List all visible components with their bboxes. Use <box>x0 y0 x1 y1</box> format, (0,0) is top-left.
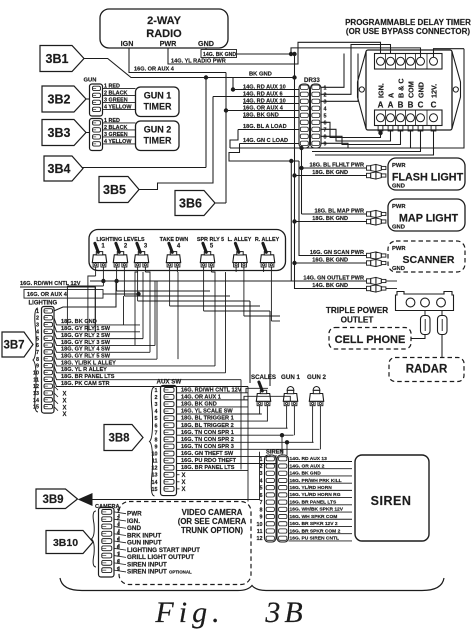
svg-text:X: X <box>62 412 66 418</box>
svg-text:18G. BK GND: 18G. BK GND <box>181 402 217 408</box>
svg-text:16G. PU RDO THEFT: 16G. PU RDO THEFT <box>181 458 237 464</box>
siren connector column A <box>265 455 277 542</box>
plug 1 (cell phone) <box>424 311 426 316</box>
figure brace <box>60 578 444 591</box>
svg-text:PROGRAMMABLE DELAY TIMER: PROGRAMMABLE DELAY TIMER <box>345 18 471 27</box>
svg-text:X: X <box>62 405 66 411</box>
svg-text:18G. GY RLY 2 SW: 18G. GY RLY 2 SW <box>61 333 111 339</box>
3B6 arrow <box>175 191 215 216</box>
svg-text:IGN.: IGN. <box>127 518 140 525</box>
svg-text:GUN 2: GUN 2 <box>144 125 172 135</box>
svg-text:9: 9 <box>36 364 39 370</box>
svg-text:SIREN INPUT: SIREN INPUT <box>127 561 167 568</box>
svg-text:A: A <box>387 93 396 98</box>
svg-text:X: X <box>181 473 185 479</box>
svg-text:14G. OR AUX 1: 14G. OR AUX 1 <box>181 394 221 400</box>
svg-text:4 YELLOW: 4 YELLOW <box>104 104 132 110</box>
svg-text:4: 4 <box>155 409 158 415</box>
svg-text:7: 7 <box>36 350 39 356</box>
svg-text:16G. GN SCAN PWR: 16G. GN SCAN PWR <box>310 250 364 256</box>
delay timer right wing <box>452 52 461 129</box>
delay timer bottom terminal strip <box>375 110 443 126</box>
svg-text:8: 8 <box>155 437 158 443</box>
svg-text:3 GREEN: 3 GREEN <box>104 97 128 103</box>
wire: 3B1 to BK GND horizontal <box>85 59 295 78</box>
DR33 connector column B <box>311 84 322 148</box>
svg-text:2 BLACK: 2 BLACK <box>104 125 127 131</box>
3B7 arrow <box>2 332 33 357</box>
svg-text:18G. BL TRIGGER 1: 18G. BL TRIGGER 1 <box>181 416 234 422</box>
svg-text:B & C: B & C <box>397 78 406 98</box>
svg-text:6: 6 <box>155 423 158 429</box>
svg-text:GUN 2: GUN 2 <box>307 374 326 381</box>
svg-text:18G. YL/BK L ALLEY: 18G. YL/BK L ALLEY <box>61 360 116 366</box>
svg-text:2: 2 <box>155 395 158 401</box>
3B4 arrow <box>44 156 83 181</box>
svg-text:1: 1 <box>36 309 39 315</box>
video camera box (dashed) <box>119 502 251 585</box>
svg-text:2-WAY: 2-WAY <box>147 15 181 27</box>
scanner box (dashed) <box>388 241 465 272</box>
lighting wire labels with underlines <box>54 318 140 325</box>
svg-text:PWR: PWR <box>392 246 406 252</box>
svg-text:5: 5 <box>155 416 158 422</box>
svg-text:5: 5 <box>210 244 214 250</box>
gun 2 connector <box>90 119 103 151</box>
svg-text:SCALES: SCALES <box>251 374 276 381</box>
switch panel box <box>89 230 286 271</box>
butt connector map gnd <box>367 218 386 225</box>
wire: timer bottom terminals down-left to DR33 <box>321 122 381 137</box>
flash light box <box>388 158 465 190</box>
DR33 wire labels left <box>233 89 299 91</box>
plug 2 (radar) <box>441 311 443 316</box>
svg-text:C: C <box>431 101 437 110</box>
DR33 connector column A <box>299 84 310 148</box>
svg-text:16G. OR AUX 4: 16G. OR AUX 4 <box>243 105 284 111</box>
svg-text:16G. TN CON SPR 2: 16G. TN CON SPR 2 <box>181 437 234 443</box>
svg-text:12: 12 <box>152 466 158 472</box>
wire: CNTL 12V to lighting web <box>20 287 95 332</box>
svg-text:16G. BR SPKR COM 2: 16G. BR SPKR COM 2 <box>290 528 341 534</box>
svg-text:14G. GN C LOAD: 14G. GN C LOAD <box>243 138 288 144</box>
3B5 arrow <box>99 177 139 203</box>
wire: cell phone to plug1 <box>411 335 425 339</box>
svg-text:5: 5 <box>324 113 327 119</box>
3B1 arrow <box>40 46 84 72</box>
butt connector flash pwr <box>367 164 386 171</box>
svg-text:GND: GND <box>392 225 405 231</box>
svg-text:7: 7 <box>155 430 158 436</box>
svg-text:11: 11 <box>257 529 263 535</box>
wire: 12V feed down right side to lights <box>434 49 465 57</box>
butt connector outlet pwr <box>367 277 386 284</box>
svg-text:14G. RD AUX 6: 14G. RD AUX 6 <box>243 91 283 97</box>
svg-text:(OR USE BYPASS CONNECTOR): (OR USE BYPASS CONNECTOR) <box>346 27 470 36</box>
butt connector flash gnd <box>367 172 386 179</box>
wire: plug2 to radar <box>441 335 443 358</box>
svg-text:16G. BR SPKR 12V 2: 16G. BR SPKR 12V 2 <box>290 521 338 527</box>
svg-text:12V.: 12V. <box>430 84 439 98</box>
svg-text:2: 2 <box>36 316 39 322</box>
svg-text:3: 3 <box>155 402 158 408</box>
svg-text:18G. BR PANEL LTS: 18G. BR PANEL LTS <box>181 465 235 471</box>
svg-text:14G. OR AUX 2: 14G. OR AUX 2 <box>290 463 325 469</box>
svg-text:18G. BL FLHLT PWR: 18G. BL FLHLT PWR <box>310 163 365 169</box>
svg-text:16G. GN THEFT SW: 16G. GN THEFT SW <box>181 451 234 457</box>
svg-text:18G. BK GND: 18G. BK GND <box>312 170 348 176</box>
svg-text:18G. YL R ALLEY: 18G. YL R ALLEY <box>61 367 107 373</box>
svg-text:MAP LIGHT: MAP LIGHT <box>399 213 459 225</box>
svg-text:16G. OR AUX 4: 16G. OR AUX 4 <box>27 292 68 298</box>
svg-text:AUX SW: AUX SW <box>157 379 182 386</box>
toggle switch 2 <box>114 263 119 267</box>
svg-text:C: C <box>418 101 424 110</box>
svg-text:4 YELLOW: 4 YELLOW <box>104 139 132 145</box>
svg-text:16G. TN CON SPR 3: 16G. TN CON SPR 3 <box>181 444 234 450</box>
svg-text:GND: GND <box>127 525 141 532</box>
svg-text:10: 10 <box>33 370 39 376</box>
svg-text:11: 11 <box>152 459 158 465</box>
svg-text:GUN INPUT: GUN INPUT <box>127 540 162 547</box>
gun2 pin wires and labels <box>103 122 136 124</box>
wire: C LOAD bracket down to lights feed <box>229 144 299 162</box>
wire: 3B3 to gun2 connector <box>86 132 90 134</box>
svg-text:18G. BL MAP PWR: 18G. BL MAP PWR <box>314 209 364 215</box>
wires from toggles to aux rows <box>260 406 262 415</box>
svg-text:X: X <box>62 392 66 398</box>
siren connector column B <box>277 455 289 542</box>
svg-text:3B2: 3B2 <box>48 93 71 107</box>
svg-text:GND: GND <box>417 82 426 98</box>
svg-text:GUN 1: GUN 1 <box>281 374 300 381</box>
wire: BK GND label to timer GND terminal <box>237 53 295 55</box>
triple power outlet bracket <box>396 292 454 311</box>
svg-text:18G. GY RLY 5 SW: 18G. GY RLY 5 SW <box>61 353 111 359</box>
wire: DR33 pin1 stub up <box>321 54 344 88</box>
2-way radio box <box>100 9 228 48</box>
svg-text:SCANNER: SCANNER <box>403 254 455 266</box>
toggle gun1 <box>284 401 289 405</box>
svg-text:1 RED: 1 RED <box>104 83 120 89</box>
svg-text:18G. BR PANEL LTS: 18G. BR PANEL LTS <box>61 374 115 380</box>
svg-text:A: A <box>378 101 384 110</box>
label: 16G. OR AUX 4 (boxed) <box>24 290 103 299</box>
wire: A LOAD staircase to lights feed <box>230 130 238 149</box>
wire: 3B6 stub to trunk <box>216 202 227 204</box>
svg-text:3B1: 3B1 <box>46 52 69 66</box>
3B9 arrow <box>36 489 78 509</box>
svg-text:16G. YL SCALE SW: 16G. YL SCALE SW <box>181 409 233 415</box>
svg-text:7: 7 <box>260 500 263 506</box>
svg-text:6: 6 <box>36 343 39 349</box>
siren wire labels with underlines <box>289 461 353 463</box>
svg-text:8: 8 <box>260 507 263 513</box>
toggle scales <box>257 401 262 405</box>
svg-text:RADAR: RADAR <box>406 364 448 376</box>
svg-text:3B: 3B <box>264 596 306 629</box>
svg-text:GRILL LIGHT OUTPUT: GRILL LIGHT OUTPUT <box>127 554 194 561</box>
svg-text:PWR: PWR <box>392 204 406 210</box>
svg-text:X: X <box>181 487 185 493</box>
wire: 3B9 line across <box>92 452 260 500</box>
svg-text:BK GND: BK GND <box>249 72 272 78</box>
verticals from lighting rows up to switch web <box>66 286 68 325</box>
svg-text:18G. BK GND: 18G. BK GND <box>312 216 348 222</box>
svg-text:18G. BL A LOAD: 18G. BL A LOAD <box>243 124 287 130</box>
svg-text:6: 6 <box>324 120 327 126</box>
svg-text:11: 11 <box>33 377 39 383</box>
3B10 arrow <box>46 531 93 554</box>
delay timer main box <box>366 50 452 130</box>
node: junction on BK GND line at x206 <box>204 76 207 79</box>
svg-text:16G. WH/BK SPKR 12V: 16G. WH/BK SPKR 12V <box>290 507 344 513</box>
svg-text:SPR RLY 5: SPR RLY 5 <box>197 237 224 243</box>
svg-text:10: 10 <box>152 452 158 458</box>
svg-text:18G. PK CAM STR: 18G. PK CAM STR <box>61 381 110 387</box>
svg-text:DR33: DR33 <box>304 77 320 84</box>
svg-text:4: 4 <box>177 244 181 250</box>
wire: radio GND to label <box>205 48 207 50</box>
svg-text:TIMER: TIMER <box>144 136 172 146</box>
svg-text:14G. RD AUX 10: 14G. RD AUX 10 <box>243 84 286 90</box>
svg-text:16G. BR PANEL LTS: 16G. BR PANEL LTS <box>290 499 337 505</box>
svg-text:OPTIONAL: OPTIONAL <box>169 570 192 575</box>
lighting connector brace <box>33 308 38 412</box>
siren box <box>355 455 429 541</box>
svg-text:1: 1 <box>324 85 327 91</box>
svg-text:14G. BK GND: 14G. BK GND <box>203 52 236 58</box>
svg-text:4: 4 <box>36 329 39 335</box>
gun 1 timer box <box>136 87 180 117</box>
svg-text:OUTLET: OUTLET <box>341 316 374 325</box>
svg-text:PWR: PWR <box>392 163 406 169</box>
lighting connector <box>42 307 55 414</box>
svg-text:3B3: 3B3 <box>48 126 71 140</box>
wire: aux r1 jog to scales area <box>246 388 268 393</box>
svg-text:IGN: IGN <box>121 39 134 48</box>
svg-text:12: 12 <box>33 384 39 390</box>
svg-text:GND: GND <box>392 266 405 272</box>
butt connector scan pwr <box>367 252 386 259</box>
svg-text:CELL PHONE: CELL PHONE <box>335 334 406 346</box>
aux X marks pins 13-15 <box>177 474 180 476</box>
svg-text:TIMER: TIMER <box>144 102 172 112</box>
3B3 arrow <box>42 120 86 146</box>
radar box (dashed) <box>389 358 464 382</box>
svg-text:18G. GY RLY 3 SW: 18G. GY RLY 3 SW <box>61 340 111 346</box>
svg-text:B: B <box>398 101 404 110</box>
svg-text:7: 7 <box>324 127 327 133</box>
svg-text:8: 8 <box>36 357 39 363</box>
svg-text:4: 4 <box>324 106 327 112</box>
camera pin labels <box>114 512 126 514</box>
gun1 pin wires and labels <box>103 87 136 89</box>
svg-text:PWR: PWR <box>160 39 178 48</box>
lighting pin1 wire up to web <box>54 281 116 311</box>
wire: radio PWR to timer IGN terminal <box>168 42 381 64</box>
svg-text:3B7: 3B7 <box>3 340 24 352</box>
node: junction DR33 pin1 line <box>231 88 234 91</box>
svg-text:16G. OR AUX 4: 16G. OR AUX 4 <box>134 67 175 73</box>
cell phone box (dashed) <box>329 328 411 350</box>
svg-text:3B8: 3B8 <box>108 433 130 445</box>
wires from buses down to gun toggles <box>249 301 251 383</box>
toggle gun2 <box>310 401 315 405</box>
svg-text:B: B <box>408 101 414 110</box>
switch terminal drop wires <box>95 267 97 276</box>
svg-text:3: 3 <box>36 323 39 329</box>
svg-text:18G. BK GND: 18G. BK GND <box>61 319 97 325</box>
svg-text:3: 3 <box>144 244 148 250</box>
svg-text:10: 10 <box>257 522 263 528</box>
camera connector brace <box>92 511 97 567</box>
svg-text:3B6: 3B6 <box>179 197 202 211</box>
toggle switch 3 <box>135 263 140 267</box>
svg-text:3B10: 3B10 <box>53 537 78 549</box>
svg-text:2: 2 <box>124 244 128 250</box>
svg-text:9: 9 <box>324 141 327 147</box>
svg-text:3B9: 3B9 <box>42 494 63 506</box>
svg-text:14: 14 <box>152 480 158 486</box>
svg-text:3: 3 <box>324 99 327 105</box>
aux sw connector <box>161 386 177 496</box>
svg-text:FLASH LIGHT: FLASH LIGHT <box>392 172 464 184</box>
svg-text:TRUNK OPTION): TRUNK OPTION) <box>181 526 243 535</box>
wire: BK GND trunk down right side <box>295 54 367 289</box>
svg-text:3B4: 3B4 <box>48 162 71 176</box>
svg-text:16G. YL/RD HORN: 16G. YL/RD HORN <box>290 485 333 491</box>
svg-text:16G. BK GND: 16G. BK GND <box>312 258 348 264</box>
label: 14G. GN C LOAD <box>240 143 300 145</box>
svg-text:3B5: 3B5 <box>103 183 126 197</box>
svg-text:X: X <box>181 480 185 486</box>
svg-text:16G. YL/RD HORN RG: 16G. YL/RD HORN RG <box>290 492 341 498</box>
wire: PK CAM STR down to camera <box>247 387 249 502</box>
svg-text:14G. BK GND: 14G. BK GND <box>312 283 348 289</box>
svg-text:8: 8 <box>324 134 327 140</box>
svg-text:14G. RD AUX 13: 14G. RD AUX 13 <box>290 456 328 462</box>
wire: vertical BK GND line to pin1 line <box>232 78 234 90</box>
camera connector <box>99 508 115 578</box>
svg-text:Fig.: Fig. <box>154 596 224 629</box>
svg-text:16G. PR/WH PRK KILL: 16G. PR/WH PRK KILL <box>290 478 342 484</box>
svg-text:1: 1 <box>101 244 105 250</box>
wire: BR PANEL LTS down to aux r12 <box>240 380 242 470</box>
wire: DR33 pin2 up to timer A terminal <box>321 45 391 95</box>
3B9 filled arrowhead <box>79 494 92 505</box>
svg-text:GND: GND <box>198 39 214 48</box>
3B8 arrow <box>104 425 143 451</box>
svg-text:BRK INPUT: BRK INPUT <box>127 532 161 539</box>
svg-text:IGN.: IGN. <box>377 83 386 98</box>
toggle switch 5 <box>201 263 206 267</box>
svg-text:3 GREEN: 3 GREEN <box>104 132 128 138</box>
wire: OR AUX 4 box to web <box>103 293 139 295</box>
butt connector map pwr <box>367 210 386 217</box>
svg-text:SIREN: SIREN <box>371 494 412 508</box>
svg-text:1 RED: 1 RED <box>104 118 120 124</box>
wire: DR33 pin3 stub up <box>321 54 358 102</box>
svg-text:13: 13 <box>152 473 158 479</box>
svg-text:(OR SEE CAMERA: (OR SEE CAMERA <box>178 517 247 526</box>
wire: 3B4 horizontal line <box>83 167 207 169</box>
wire: OR AUX 4 trunk down to 3B6 <box>225 73 227 204</box>
svg-text:GND: GND <box>392 184 405 190</box>
svg-text:GUN 1: GUN 1 <box>144 91 172 101</box>
label: 18G. BL A LOAD <box>238 129 299 131</box>
svg-text:18G. GY RLY 1 SW: 18G. GY RLY 1 SW <box>61 326 111 332</box>
svg-text:PWR: PWR <box>127 511 142 518</box>
svg-text:TAKE DWN: TAKE DWN <box>160 237 189 243</box>
svg-text:A: A <box>388 101 394 110</box>
gun 2 timer box <box>136 121 180 151</box>
wires from aux rows into siren connector top <box>269 455 271 456</box>
svg-text:16G. WH SPKR COM: 16G. WH SPKR COM <box>290 514 338 520</box>
svg-text:COM: COM <box>407 81 416 98</box>
node: junction OR AUX 4 at pin4 line <box>224 109 227 112</box>
toggle switch 7 <box>261 263 266 267</box>
svg-text:2: 2 <box>324 92 327 98</box>
svg-text:14G. BK GND: 14G. BK GND <box>290 471 322 477</box>
3B2 arrow <box>42 86 86 112</box>
svg-text:9: 9 <box>260 515 263 521</box>
svg-text:L. ALLEY: L. ALLEY <box>228 237 252 243</box>
svg-text:16G. PU SIREN CNTL: 16G. PU SIREN CNTL <box>290 536 339 542</box>
butt connector scan gnd <box>367 259 386 266</box>
svg-text:14G. RD AUX 10: 14G. RD AUX 10 <box>243 98 286 104</box>
svg-text:18G. BL TRIGGER 2: 18G. BL TRIGGER 2 <box>181 423 234 429</box>
label: 14G. BK GND (boxed) <box>201 50 237 58</box>
wire: PWR feed verticals right side <box>299 161 367 256</box>
aux wire labels with underlines <box>177 392 249 394</box>
wire: outlet feeds to bracket <box>386 280 397 282</box>
svg-text:16G. RD/WH CNTL 12V: 16G. RD/WH CNTL 12V <box>181 387 242 393</box>
delay timer left wing <box>358 52 367 129</box>
svg-text:GUN: GUN <box>84 78 97 84</box>
svg-text:VIDEO CAMERA: VIDEO CAMERA <box>182 508 243 517</box>
svg-text:5: 5 <box>36 336 39 342</box>
wire: 3B5 path up to DR33 pin2 line <box>139 97 213 190</box>
svg-text:LIGHTING START INPUT: LIGHTING START INPUT <box>127 547 200 554</box>
wire: 3B2 to gun1 connector <box>86 98 90 100</box>
svg-text:SIREN INPUT: SIREN INPUT <box>127 569 167 576</box>
svg-text:R. ALLEY: R. ALLEY <box>255 237 280 243</box>
wire: aux r2 jog to gun1 toggle <box>244 396 290 401</box>
bus wires under switch panel <box>90 280 367 282</box>
svg-text:2 BLACK: 2 BLACK <box>104 90 127 96</box>
wire: radio IGN drop to 16G. OR AUX 4 line <box>129 48 226 73</box>
toggle switch 6 <box>234 263 239 267</box>
toggle switch 4 <box>167 263 172 267</box>
lighting X marks pins 12-15 <box>54 386 58 390</box>
map light box <box>388 199 465 231</box>
gun 1 connector <box>90 84 103 116</box>
toggle switch 1 <box>93 263 98 267</box>
svg-text:15: 15 <box>33 405 39 411</box>
svg-text:TRIPLE POWER: TRIPLE POWER <box>326 306 388 315</box>
butt connector outlet gnd <box>367 285 386 292</box>
svg-text:1: 1 <box>155 388 158 394</box>
svg-text:X: X <box>62 398 66 404</box>
svg-text:18G. BK GND: 18G. BK GND <box>243 112 279 118</box>
svg-text:12: 12 <box>257 536 263 542</box>
wire: vertical x206 from BK GND line down to 3B4 line <box>205 78 207 168</box>
svg-text:LIGHTING: LIGHTING <box>29 301 58 307</box>
svg-text:16G. TN CON SPR 1: 16G. TN CON SPR 1 <box>181 430 234 436</box>
svg-text:14: 14 <box>33 398 39 404</box>
svg-text:18G. GY RLY 4 SW: 18G. GY RLY 4 SW <box>61 347 111 353</box>
